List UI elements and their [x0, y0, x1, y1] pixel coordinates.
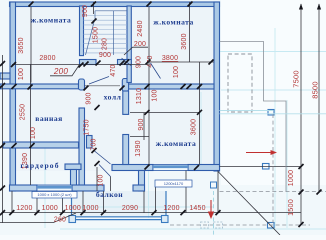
porch column bottom	[268, 223, 275, 229]
svg-text:1200: 1200	[16, 205, 32, 212]
balcony corner post right	[162, 216, 169, 223]
svg-text:1500: 1500	[93, 27, 100, 43]
wall right outer	[214, 2, 220, 171]
bottom chain	[3, 212, 302, 214]
svg-text:100: 100	[152, 89, 159, 101]
svg-text:3600: 3600	[191, 119, 198, 135]
svg-text:1000: 1000	[42, 205, 58, 212]
tick stair arrow head	[92, 19, 97, 24]
svg-text:3600: 3600	[181, 33, 188, 49]
wall stair bottom right piece	[118, 60, 132, 65]
red dimension texts horizontal	[16, 41, 205, 224]
ticks right chain	[299, 164, 304, 169]
ticks wardrobe door	[92, 148, 97, 153]
wall center vertical upper	[123, 91, 129, 114]
wall hall top right segment	[128, 84, 214, 89]
dim line 2800 interior chain	[12, 64, 148, 66]
right chain 8500 line	[318, 4, 320, 192]
porch cyan lines	[220, 111, 326, 114]
svg-text:3650: 3650	[18, 37, 25, 53]
svg-text:100: 100	[30, 127, 37, 139]
ext line right wall to chain	[217, 171, 219, 213]
svg-text:1000: 1000	[65, 205, 81, 212]
ext line wardrobe right to chain	[82, 191, 84, 213]
left edge chain	[2, 55, 4, 223]
red entrance arrow	[208, 200, 214, 219]
wall pier near bath	[87, 136, 93, 149]
svg-text:2480: 2480	[137, 20, 144, 36]
door swing room2	[151, 63, 161, 79]
ext line mid low	[143, 113, 145, 140]
room labels	[20, 16, 196, 200]
svg-text:1390: 1390	[135, 140, 142, 156]
roof outline gray	[220, 42, 287, 192]
grid axis lines (cyan)	[45, 28, 326, 229]
pier hall center	[122, 79, 128, 92]
pier hall left	[79, 79, 85, 90]
svg-text:1750: 1750	[84, 119, 91, 135]
arrowhead 8500 top	[317, 4, 321, 10]
label 200 underline and leader	[50, 65, 80, 76]
wall room1 bottom	[0, 84, 79, 89]
svg-text:470: 470	[110, 64, 117, 76]
arrowhead 7500 top	[299, 4, 303, 10]
svg-text:900: 900	[138, 118, 145, 130]
svg-text:900: 900	[136, 56, 143, 68]
stair box	[86, 11, 128, 55]
svg-text:8500: 8500	[311, 81, 320, 99]
ticks top wall	[29, 2, 34, 7]
wall left outer	[10, 2, 16, 191]
wall stub left edge	[0, 73, 10, 79]
wall center vertical lower	[123, 135, 129, 165]
dim line across landing	[85, 85, 121, 87]
ext line step to chain	[143, 191, 145, 213]
balcony outline	[72, 191, 167, 220]
svg-text:900: 900	[86, 92, 93, 104]
door swing hall landing	[89, 77, 109, 85]
svg-text:1000: 1000	[82, 205, 98, 212]
ticks bottom chain	[9, 210, 14, 215]
porch square small	[211, 182, 217, 188]
wall bath bottom	[3, 142, 79, 148]
dashed porch line vertical	[272, 114, 274, 223]
svg-text:ж.комната: ж.комната	[31, 16, 72, 25]
red compass arrow right	[246, 150, 277, 155]
dashed post left	[201, 222, 209, 228]
window room3 (bottom wall)	[153, 165, 188, 171]
svg-text:280: 280	[102, 38, 109, 50]
leader 260	[0, 213, 76, 223]
svg-text:100: 100	[98, 174, 105, 186]
ticks left chain	[0, 61, 5, 66]
ext line left wall to chain	[11, 191, 13, 213]
door swing wardrobe	[95, 151, 111, 164]
ext line vestibule	[96, 167, 98, 191]
wall hall-bath vertical	[79, 108, 85, 191]
dim line 1310	[130, 112, 200, 114]
dashed eave line lower	[170, 224, 310, 226]
svg-text:2800: 2800	[39, 55, 55, 62]
svg-text:200: 200	[53, 67, 69, 76]
tick bath door	[95, 105, 100, 110]
whiter right area	[221, 0, 326, 185]
door swing balcony	[99, 165, 111, 177]
wall wardrobe right	[71, 170, 77, 186]
staircase	[84, 16, 128, 53]
cyan dashed axis bottom right	[213, 191, 215, 235]
ticks bath bottom wall	[12, 143, 17, 148]
building interior tint	[15, 6, 214, 171]
ticks room3 bottom wall	[145, 165, 150, 170]
svg-text:100: 100	[18, 68, 25, 80]
dashed shaft rect	[228, 54, 252, 112]
svg-text:1450: 1450	[189, 205, 205, 212]
ticks hall top wall	[12, 84, 17, 89]
svg-text:холл: холл	[104, 93, 122, 102]
svg-text:ж.комната: ж.комната	[156, 139, 197, 148]
ext line room2	[189, 2, 191, 62]
svg-text:ванная: ванная	[35, 114, 63, 123]
svg-text:ж.комната: ж.комната	[153, 18, 194, 27]
wall bottom left segment	[10, 185, 38, 191]
porch column top	[268, 110, 274, 116]
label box room3 window	[155, 180, 192, 187]
wall room3 bottom right segment	[188, 165, 220, 171]
dim line 3800	[148, 61, 214, 63]
right chain 7500 line	[300, 4, 302, 225]
svg-text:200: 200	[134, 41, 146, 48]
label 200b underline and leader	[124, 47, 148, 55]
svg-text:1000: 1000	[288, 170, 295, 186]
ext line vestibule b	[110, 177, 112, 192]
svg-text:3800: 3800	[162, 55, 178, 62]
svg-text:260: 260	[54, 217, 66, 224]
svg-text:гардероб: гардероб	[20, 161, 59, 170]
svg-text:1200: 1200	[163, 205, 179, 212]
ext line window1 left	[36, 191, 38, 213]
svg-text:1500: 1500	[286, 199, 295, 216]
ext line interior left chain	[30, 64, 32, 185]
label box balcony window	[32, 192, 77, 199]
diagonal from corner	[218, 172, 280, 236]
ext line box left	[155, 187, 157, 213]
svg-text:1000 х 1000 (2 шт): 1000 х 1000 (2 шт)	[37, 192, 72, 197]
svg-text:900: 900	[82, 5, 89, 17]
window wardrobe (bottom wall)	[37, 185, 72, 191]
porch column mid	[263, 164, 270, 170]
tick 3800 right end	[209, 60, 214, 65]
line building corner right	[220, 166, 302, 168]
svg-text:700: 700	[91, 138, 98, 150]
ext line window3 left	[185, 171, 187, 213]
ext line room1 left	[30, 7, 32, 83]
wall step vestibule	[139, 171, 145, 192]
wall stair left	[80, 6, 84, 56]
ext line stair top	[93, 2, 95, 14]
door swing stair	[122, 58, 132, 66]
wall room3 bottom left segment	[112, 165, 153, 171]
wall bottom right segment	[133, 185, 145, 191]
tick 3800 left	[146, 60, 151, 65]
ext line room3 right	[199, 62, 201, 165]
ticks dim 1310	[145, 110, 150, 115]
dashed eave line upper	[220, 191, 326, 193]
svg-text:балкон: балкон	[96, 190, 123, 199]
ticks stair door	[96, 61, 101, 66]
svg-text:900: 900	[99, 52, 111, 59]
wall stair bottom left piece	[80, 60, 97, 65]
dim line door900	[130, 135, 149, 137]
ext line balcony door to chain	[103, 191, 105, 213]
balcony interior tint	[72, 191, 166, 218]
wall bottom mid segment	[72, 185, 104, 191]
dashed post right	[214, 222, 223, 228]
svg-text:2550: 2550	[20, 104, 27, 120]
svg-text:7500: 7500	[292, 70, 301, 88]
balcony corner post left	[69, 216, 76, 223]
svg-text:2090: 2090	[122, 205, 138, 212]
wall wardrobe top-right piece	[65, 164, 81, 170]
svg-text:100: 100	[173, 66, 180, 78]
wall top outer	[10, 2, 220, 7]
svg-text:1200х1170: 1200х1170	[164, 181, 184, 186]
ext line center long	[148, 7, 150, 165]
ticks dim 2800	[11, 62, 16, 67]
ext line window1 right	[62, 191, 64, 213]
wall stair right / room2 left	[127, 6, 131, 83]
svg-text:1310: 1310	[136, 88, 143, 104]
